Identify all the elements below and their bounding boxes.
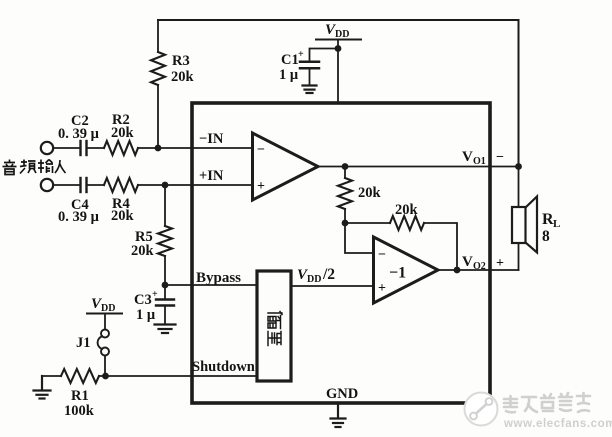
char ru <box>55 160 66 173</box>
node VO2 <box>454 267 461 274</box>
wire <box>53 147 80 149</box>
svg-text:+: + <box>298 49 304 60</box>
wire <box>87 184 105 186</box>
ground below C3 <box>155 325 176 334</box>
wire speaker bottom <box>518 243 520 270</box>
node VO1 speaker <box>515 163 522 170</box>
IC box <box>192 103 490 403</box>
svg-text:−: − <box>378 248 386 263</box>
node shutdown junction <box>102 373 109 380</box>
svg-text:100k: 100k <box>64 403 95 419</box>
speaker RL <box>512 197 560 253</box>
svg-text:O1: O1 <box>473 156 486 167</box>
input terminal lower <box>41 179 53 191</box>
svg-text:0. 39 μ: 0. 39 μ <box>58 209 100 225</box>
svg-text:+: + <box>378 281 386 296</box>
svg-text:+: + <box>152 289 158 300</box>
svg-text:+: + <box>496 256 504 271</box>
svg-text:C1: C1 <box>281 52 299 68</box>
wire VO2 <box>438 269 519 271</box>
resistor 20k feedback (vertical) <box>338 167 382 224</box>
node feedback top <box>342 163 349 170</box>
svg-text:+IN: +IN <box>199 168 224 184</box>
svg-text:0. 39 μ: 0. 39 μ <box>58 126 100 142</box>
wire <box>310 49 339 62</box>
svg-text:Bypass: Bypass <box>196 270 241 286</box>
svg-text:20k: 20k <box>171 69 195 85</box>
watermark logo circle <box>465 393 498 426</box>
capacitor C1 <box>279 49 319 85</box>
input terminal upper <box>41 142 53 154</box>
wire <box>87 147 105 149</box>
node +IN / R5 junction <box>162 182 169 189</box>
svg-text:/2: /2 <box>322 266 335 283</box>
jumper J1 <box>76 314 109 377</box>
svg-text:20k: 20k <box>111 125 135 141</box>
svg-text:V: V <box>462 254 473 270</box>
svg-text:8: 8 <box>542 228 550 245</box>
capacitor C3 <box>134 285 174 324</box>
svg-text:Shutdown: Shutdown <box>192 359 255 375</box>
svg-text:20k: 20k <box>111 208 135 224</box>
resistor R1 <box>42 369 106 419</box>
ground below GND <box>331 403 346 427</box>
svg-text:−IN: −IN <box>199 131 224 147</box>
svg-text:20k: 20k <box>358 185 382 201</box>
svg-text:GND: GND <box>326 386 358 402</box>
svg-text:O2: O2 <box>473 261 486 272</box>
wire VDD/2 from bias to U2 + input <box>291 285 373 287</box>
wire <box>424 223 457 270</box>
wire speaker top <box>518 167 520 208</box>
svg-text:1 μ: 1 μ <box>136 307 156 323</box>
wire VO1 from op-amp to speaker node <box>318 166 519 168</box>
wire <box>53 184 80 186</box>
capacitor C2 <box>58 113 100 155</box>
svg-text:DD: DD <box>101 303 115 314</box>
wire VDD to IC <box>337 40 339 104</box>
label audio input (Chinese) <box>3 160 66 175</box>
resistor R3 <box>151 20 195 148</box>
svg-text:DD: DD <box>335 29 349 40</box>
label VO1 <box>462 149 486 167</box>
power VDD at J1 <box>87 296 122 314</box>
wire +IN <box>138 184 252 186</box>
node feedback bottom <box>342 220 349 227</box>
svg-text:DD: DD <box>307 274 321 285</box>
svg-text:20k: 20k <box>131 243 155 259</box>
label VDD/2 <box>297 266 335 285</box>
node R3 / -IN junction <box>155 145 162 152</box>
wire -IN <box>138 147 252 149</box>
char yin <box>3 160 17 175</box>
wire <box>345 222 390 224</box>
resistor 20k (horizontal) <box>390 202 424 230</box>
svg-text:R3: R3 <box>172 53 190 69</box>
node C1 branch <box>335 45 342 52</box>
resistor R4 <box>104 178 138 224</box>
svg-text:+: + <box>257 179 265 194</box>
svg-text:V: V <box>462 149 473 165</box>
capacitor C4 <box>58 178 100 225</box>
wire Bypass <box>165 284 257 286</box>
svg-text:R1: R1 <box>71 388 89 404</box>
char pin <box>20 160 36 174</box>
ground left of R1 <box>34 376 51 399</box>
wire Shutdown <box>106 375 258 377</box>
svg-text:J1: J1 <box>76 335 91 351</box>
char shu <box>38 160 53 174</box>
svg-text:L: L <box>553 218 560 230</box>
resistor R5 <box>131 185 172 285</box>
svg-text:www.elecfans.com: www.elecfans.com <box>503 418 612 430</box>
bias block (pian zhi) <box>257 271 291 381</box>
power VDD at C1 <box>316 22 361 40</box>
op-amp U1 <box>253 133 319 200</box>
node Bypass / C3 junction <box>162 282 169 289</box>
svg-text:1 μ: 1 μ <box>279 67 299 83</box>
watermark text elecfans <box>504 393 590 412</box>
wire to inverting input of U2 <box>345 223 373 253</box>
svg-text:−: − <box>496 150 504 165</box>
wire top feedback from R3 to VO1 node <box>158 20 519 166</box>
svg-text:−: − <box>257 143 265 158</box>
svg-text:−1: −1 <box>389 265 406 282</box>
ground below C1 <box>303 86 317 94</box>
op-amp U2 <box>374 237 439 303</box>
svg-text:20k: 20k <box>395 202 419 218</box>
svg-text:C3: C3 <box>134 292 152 308</box>
label VO2 <box>462 254 486 272</box>
resistor R2 <box>104 112 138 155</box>
